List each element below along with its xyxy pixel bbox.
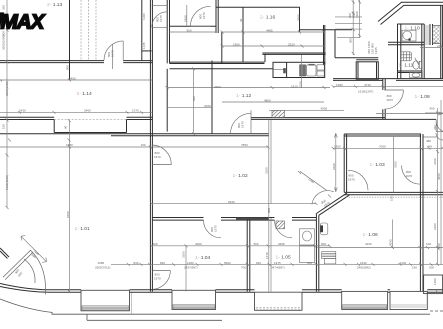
svg-text:450: 450 [430,106,435,110]
svg-text:2400: 2400 [184,15,188,22]
svg-text:2800(1100): 2800(1100) [5,81,9,96]
svg-text:500: 500 [153,242,158,246]
svg-text:4220: 4220 [365,242,372,246]
svg-text:1970: 1970 [386,98,393,102]
svg-text:1970: 1970 [159,15,163,22]
svg-text:1300: 1300 [334,145,341,149]
svg-text:4300: 4300 [214,85,221,89]
svg-text:3005: 3005 [297,14,301,21]
svg-text:2980: 2980 [437,243,441,250]
svg-text:940: 940 [256,261,261,265]
svg-text:2460: 2460 [84,109,91,113]
svg-text:1200: 1200 [433,278,437,285]
svg-text:1380: 1380 [336,83,343,87]
svg-text:2690: 2690 [332,163,336,170]
svg-text:1- 1.08: 1- 1.08 [415,94,431,100]
svg-text:500: 500 [321,242,326,246]
svg-text:3300: 3300 [394,161,398,168]
svg-text:2520: 2520 [288,43,295,47]
svg-text:700: 700 [241,265,246,269]
svg-text:1670: 1670 [265,252,269,259]
svg-text:7850: 7850 [241,143,248,147]
svg-text:3860: 3860 [437,173,441,180]
svg-text:2430: 2430 [19,109,26,113]
svg-text:1340: 1340 [400,261,407,265]
svg-text:1145: 1145 [142,42,146,49]
svg-text:210: 210 [437,44,442,48]
svg-text:5600: 5600 [224,261,231,265]
svg-text:150: 150 [2,124,6,129]
svg-text:360: 360 [307,261,312,265]
svg-text:1- 1.02: 1- 1.02 [233,173,249,179]
svg-text:1940: 1940 [360,261,367,265]
svg-text:4050: 4050 [321,107,328,111]
svg-text:1- 1.11: 1- 1.11 [399,62,414,68]
svg-text:1970: 1970 [154,155,161,159]
svg-text:3474(987): 3474(987) [271,265,285,269]
svg-text:8450: 8450 [66,211,70,218]
svg-text:440: 440 [427,145,432,149]
svg-text:1480: 1480 [187,261,194,265]
svg-text:3600(1500): 3600(1500) [2,35,6,50]
svg-text:900: 900 [187,29,192,33]
svg-text:6940: 6940 [228,200,235,204]
svg-text:4800: 4800 [264,98,271,102]
svg-text:1365: 1365 [374,47,378,54]
svg-text:1100(1100): 1100(1100) [5,175,9,190]
svg-text:1960: 1960 [233,43,240,47]
svg-text:2695: 2695 [278,242,285,246]
svg-text:90: 90 [64,125,68,129]
svg-text:1- 1.04: 1- 1.04 [195,255,211,261]
svg-text:MAX: MAX [1,10,46,33]
svg-text:480: 480 [426,139,431,143]
svg-text:30: 30 [239,18,243,22]
svg-text:2400: 2400 [433,223,437,230]
svg-text:1975: 1975 [274,261,281,265]
svg-text:100: 100 [141,143,146,147]
svg-text:1970: 1970 [406,174,413,178]
svg-text:1- 1.03: 1- 1.03 [370,162,386,168]
svg-text:1- 1.06: 1- 1.06 [363,232,379,238]
svg-text:500: 500 [254,242,259,246]
svg-text:4730: 4730 [364,83,371,87]
svg-text:3300: 3300 [265,167,269,174]
svg-text:4000: 4000 [195,242,202,246]
svg-text:1980: 1980 [98,261,105,265]
svg-text:190: 190 [412,265,417,269]
svg-text:2150: 2150 [299,81,303,88]
svg-text:1970: 1970 [241,121,245,128]
svg-text:7000: 7000 [379,145,386,149]
svg-text:1100: 1100 [142,13,146,20]
svg-text:4050: 4050 [389,239,393,246]
svg-text:2437(987): 2437(987) [184,265,198,269]
svg-text:1- 1.01: 1- 1.01 [75,226,91,232]
svg-text:2505(7015): 2505(7015) [95,265,110,269]
svg-text:360: 360 [2,5,6,10]
svg-text:800: 800 [267,208,271,213]
svg-text:1618(1297): 1618(1297) [358,89,373,93]
svg-text:200: 200 [429,265,434,269]
svg-text:1375: 1375 [132,109,139,113]
svg-text:905: 905 [349,38,353,43]
svg-text:100: 100 [426,242,431,246]
svg-text:440: 440 [433,125,437,130]
svg-text:2- 1.16: 2- 1.16 [260,15,276,21]
svg-text:1970: 1970 [348,178,355,182]
svg-text:1- 1.12: 1- 1.12 [236,93,252,99]
svg-text:800: 800 [66,65,70,70]
svg-text:6400: 6400 [69,76,76,80]
svg-text:1- 1.05: 1- 1.05 [276,254,292,260]
svg-text:1- 1.10: 1- 1.10 [405,26,421,32]
svg-text:1810: 1810 [291,84,298,88]
svg-text:1970: 1970 [154,277,161,281]
svg-text:1970: 1970 [111,50,115,57]
svg-text:2- 1.13: 2- 1.13 [47,2,63,8]
svg-text:1970: 1970 [202,12,206,19]
svg-text:150: 150 [390,196,394,201]
svg-text:3460: 3460 [433,158,437,165]
svg-text:920: 920 [192,96,196,101]
svg-text:1200: 1200 [355,11,359,18]
svg-text:4485: 4485 [266,28,273,32]
svg-text:1970: 1970 [214,225,218,232]
svg-text:820: 820 [160,261,165,265]
svg-text:2- 1.14: 2- 1.14 [77,91,93,97]
svg-text:2482(982): 2482(982) [357,265,371,269]
svg-text:3300: 3300 [182,251,186,258]
svg-text:3460: 3460 [204,104,211,108]
svg-text:1880: 1880 [66,143,73,147]
svg-text:840: 840 [134,261,139,265]
